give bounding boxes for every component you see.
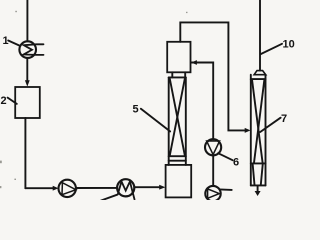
pipe 10 into column 7 bbox=[259, 0, 261, 71]
bottom pump triangle right bbox=[208, 189, 220, 198]
wire: vessel 2 down bbox=[24, 118, 26, 188]
leader line to cropped label bbox=[101, 195, 117, 201]
leader line for label 6 bbox=[218, 153, 233, 160]
arrowhead into drum 5 bbox=[191, 60, 197, 65]
wire: compressor 6 riser to drum 5 bbox=[192, 63, 214, 140]
column 7 bottom taper bbox=[253, 165, 255, 185]
wire: HX1 down to vessel 2 bbox=[26, 58, 28, 82]
wire: pump6 down to bottom pump bbox=[212, 156, 214, 187]
wire: column5 overhead loop to column 7 bbox=[180, 22, 245, 130]
svg-text:7: 7 bbox=[281, 113, 287, 125]
wire: bottom pump outlet bbox=[220, 188, 232, 191]
scan specks bbox=[0, 11, 188, 188]
wire: bottom run to pump bbox=[25, 187, 53, 189]
column 7 top cap trapezoid bbox=[254, 71, 266, 75]
pump P1 circle bbox=[58, 180, 75, 197]
M zigzag coil bbox=[118, 182, 135, 200]
svg-text:1: 1 bbox=[3, 35, 9, 47]
column 5 packing bottom lines bbox=[169, 155, 186, 157]
leader line for label 1 bbox=[8, 41, 19, 46]
pump 6 circle bbox=[205, 139, 221, 155]
svg-text:10: 10 bbox=[283, 39, 295, 51]
column 7 packing X brace bbox=[252, 80, 263, 163]
svg-text:2: 2 bbox=[1, 95, 7, 107]
column 5 neck below top drum bbox=[171, 72, 173, 77]
leader line for label 10 bbox=[261, 44, 282, 54]
column 7 shell bbox=[250, 75, 252, 186]
wire: HX to column 5 sump bbox=[135, 186, 159, 188]
wire: feed inlet down to heat exchanger 1 bbox=[26, 0, 28, 41]
pump P1 impeller triangle bbox=[62, 183, 76, 195]
leader line for label 2 bbox=[8, 98, 17, 104]
column 5 top drum bbox=[167, 42, 190, 73]
leader line for label 7 bbox=[260, 118, 280, 132]
vessel V2 rectangle bbox=[15, 87, 40, 118]
heat exchanger U1 zigzag coil with right stubs bbox=[24, 44, 44, 55]
column 5 body shell bbox=[169, 76, 186, 78]
arrowhead into pump bbox=[53, 186, 59, 191]
leader line for label 5 bbox=[141, 109, 170, 132]
heat exchanger U1 circle bbox=[19, 41, 36, 58]
svg-text:6: 6 bbox=[233, 157, 239, 169]
pump 6 triangle down bbox=[207, 141, 220, 155]
column 5 sump drum bbox=[166, 165, 192, 198]
bottom pump circle bbox=[205, 186, 220, 201]
arrowhead into column 7 bbox=[245, 128, 251, 133]
wire: pump to heat exchanger bbox=[76, 187, 117, 189]
column 5 packing X brace bbox=[170, 79, 185, 156]
arrowhead into vessel 2 bbox=[25, 80, 30, 86]
heat exchanger circle with M coil bbox=[117, 179, 134, 196]
column 7 packing bottom line bbox=[251, 162, 266, 164]
outlet arrowhead down bbox=[255, 191, 261, 196]
column 7 bottom outlet stub bbox=[257, 185, 259, 191]
svg-text:5: 5 bbox=[133, 104, 139, 116]
arrowhead into sump bbox=[159, 185, 165, 190]
